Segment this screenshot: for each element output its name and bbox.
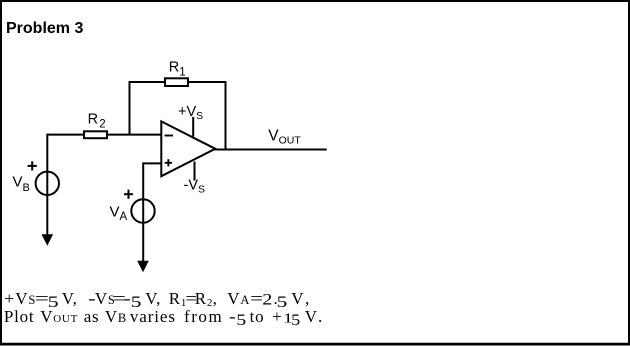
svg-text:PlotVOUTasVBvariesfrom-5to+15V: PlotVOUTasVBvariesfrom-5to+15V. — [4, 307, 323, 329]
resistor R2 — [84, 131, 107, 138]
wire: feedback right vertical down to output node — [225, 81, 227, 150]
wire: inverting input horizontal — [47, 134, 161, 136]
op-amp U1 triangle — [161, 121, 215, 176]
ground arrow of VA — [137, 261, 149, 273]
wire: VB branch vertical — [46, 134, 48, 236]
wire: VA branch vertical — [142, 162, 144, 262]
ground arrow of VB — [42, 234, 54, 246]
source VB circle — [36, 172, 59, 195]
op-amp non-inverting input plus marker — [165, 159, 172, 166]
wire: +VS supply stub — [192, 117, 194, 137]
svg-text:+VS: +VS — [178, 104, 203, 122]
wire: feedback left vertical (node A to top) — [129, 81, 131, 135]
bottom border heavy line — [0, 343, 630, 346]
svg-text:R1: R1 — [169, 60, 186, 79]
wire: feedback top horizontal right segment — [188, 81, 227, 83]
wire: -VS supply stub — [194, 162, 196, 181]
svg-text:Problem 3: Problem 3 — [6, 20, 83, 37]
svg-text:VA: VA — [110, 204, 128, 223]
svg-text:R2: R2 — [88, 112, 106, 131]
source VA circle — [131, 199, 154, 222]
op-amp inverting input minus marker — [165, 135, 173, 137]
svg-text:VB: VB — [13, 173, 30, 194]
wire: feedback top horizontal left segment — [129, 81, 166, 83]
resistor R1 — [165, 78, 188, 86]
wire: non-inverting input horizontal — [143, 162, 161, 164]
svg-text:-VS: -VS — [184, 178, 206, 196]
svg-text:VOUT: VOUT — [268, 128, 301, 147]
wire: output horizontal — [215, 149, 327, 151]
plus sign of VB — [28, 161, 37, 170]
plus sign of VA — [124, 190, 133, 199]
